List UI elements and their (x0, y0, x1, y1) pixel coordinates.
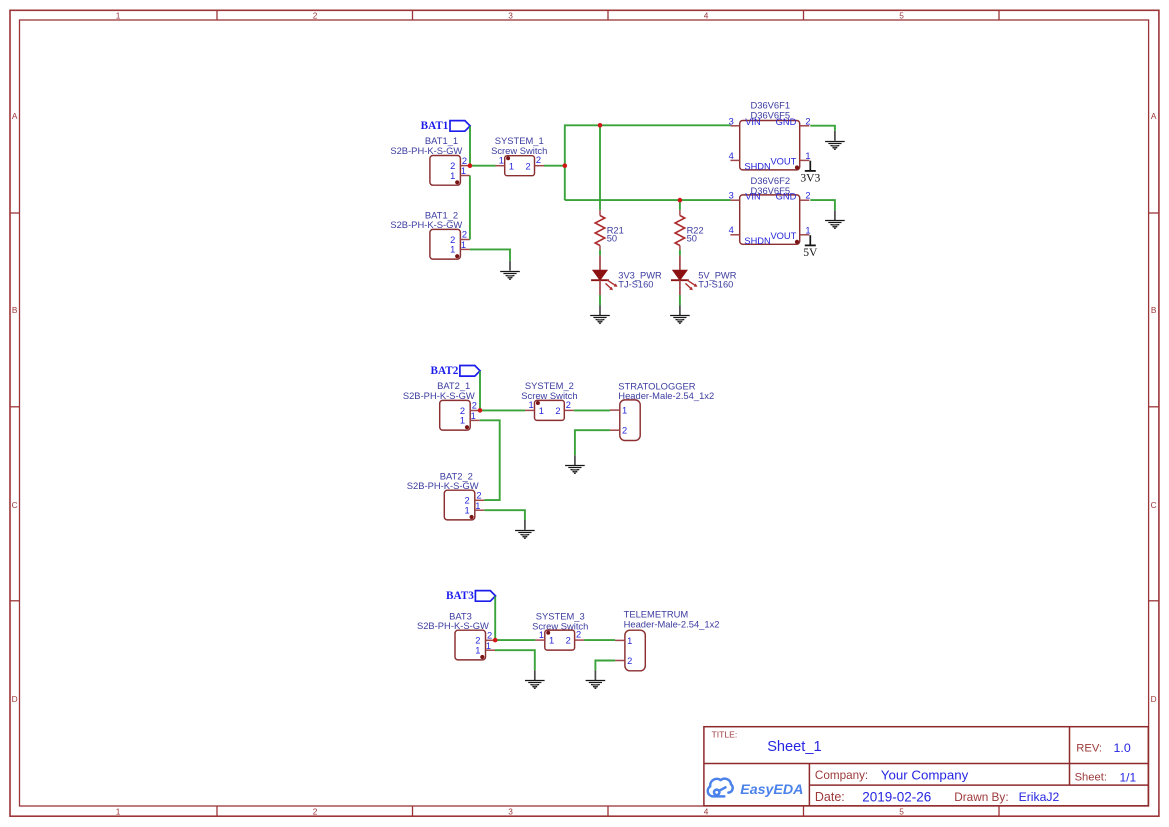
svg-text:1: 1 (450, 245, 455, 255)
svg-text:2: 2 (536, 155, 541, 165)
svg-text:2: 2 (622, 426, 627, 436)
svg-text:2019-02-26: 2019-02-26 (862, 789, 931, 804)
svg-text:2: 2 (450, 235, 455, 245)
svg-text:B: B (12, 305, 18, 315)
svg-text:2: 2 (462, 156, 467, 166)
svg-text:4: 4 (729, 225, 734, 235)
svg-text:2: 2 (526, 161, 531, 171)
svg-text:2: 2 (576, 630, 581, 640)
svg-text:VOUT: VOUT (770, 231, 796, 241)
svg-text:2: 2 (566, 636, 571, 646)
svg-text:50: 50 (687, 233, 697, 243)
svg-text:REV:: REV: (1076, 743, 1102, 755)
svg-text:VOUT: VOUT (770, 157, 796, 167)
svg-text:C: C (12, 500, 18, 510)
svg-text:BAT3: BAT3 (446, 590, 474, 602)
svg-text:3: 3 (508, 10, 513, 20)
svg-text:1: 1 (461, 240, 466, 250)
svg-text:2: 2 (805, 191, 810, 201)
svg-text:EasyEDA: EasyEDA (740, 782, 803, 798)
svg-text:1: 1 (460, 416, 465, 426)
svg-text:4: 4 (729, 151, 734, 161)
svg-text:3: 3 (508, 806, 513, 816)
svg-text:TJ-S160: TJ-S160 (618, 280, 653, 290)
svg-text:1: 1 (461, 166, 466, 176)
svg-text:1: 1 (116, 806, 121, 816)
svg-text:VIN: VIN (745, 191, 761, 201)
svg-text:Sheet:: Sheet: (1075, 772, 1107, 784)
svg-text:1: 1 (465, 506, 470, 516)
svg-text:Company:: Company: (815, 769, 868, 782)
svg-text:2: 2 (805, 116, 810, 126)
svg-text:2: 2 (566, 400, 571, 410)
svg-text:GND: GND (776, 191, 797, 201)
svg-text:A: A (1151, 111, 1157, 121)
svg-text:50: 50 (607, 233, 617, 243)
svg-text:2: 2 (460, 406, 465, 416)
svg-text:1: 1 (539, 406, 544, 416)
svg-text:1: 1 (116, 10, 121, 20)
svg-text:2: 2 (487, 631, 492, 641)
svg-text:TJ-S160: TJ-S160 (698, 280, 733, 290)
svg-text:4: 4 (704, 806, 709, 816)
svg-text:2: 2 (465, 496, 470, 506)
svg-text:1: 1 (486, 641, 491, 651)
svg-text:1: 1 (622, 406, 627, 416)
svg-text:S2B-PH-K-S-GW: S2B-PH-K-S-GW (407, 480, 479, 491)
svg-text:S2B-PH-K-S-GW: S2B-PH-K-S-GW (403, 390, 475, 401)
svg-text:A: A (12, 111, 18, 121)
svg-text:Your Company: Your Company (881, 767, 969, 782)
svg-text:2: 2 (476, 491, 481, 501)
svg-text:2: 2 (627, 656, 632, 666)
svg-text:SHDN: SHDN (744, 236, 770, 246)
svg-text:BAT2: BAT2 (431, 365, 459, 377)
svg-text:ErikaJ2: ErikaJ2 (1019, 790, 1060, 804)
svg-text:1: 1 (627, 636, 632, 646)
svg-text:1: 1 (475, 646, 480, 656)
svg-text:1: 1 (805, 151, 810, 161)
svg-text:VIN: VIN (745, 117, 761, 127)
svg-text:4: 4 (704, 10, 709, 20)
svg-text:1: 1 (475, 501, 480, 511)
svg-text:S2B-PH-K-S-GW: S2B-PH-K-S-GW (390, 145, 462, 156)
svg-text:S2B-PH-K-S-GW: S2B-PH-K-S-GW (390, 219, 462, 230)
svg-text:1: 1 (499, 156, 504, 166)
svg-text:1.0: 1.0 (1114, 741, 1131, 755)
svg-text:D: D (12, 694, 18, 704)
svg-text:2: 2 (475, 636, 480, 646)
svg-text:1/1: 1/1 (1120, 770, 1137, 784)
svg-text:S2B-PH-K-S-GW: S2B-PH-K-S-GW (417, 620, 489, 631)
svg-text:1: 1 (450, 171, 455, 181)
svg-text:TITLE:: TITLE: (712, 729, 738, 739)
svg-text:1: 1 (805, 226, 810, 236)
svg-text:B: B (1151, 305, 1157, 315)
svg-text:BAT1: BAT1 (421, 120, 449, 132)
svg-text:GND: GND (776, 117, 797, 127)
svg-text:Date:: Date: (815, 790, 845, 804)
svg-text:5V: 5V (803, 246, 818, 259)
svg-text:Header-Male-2.54_1x2: Header-Male-2.54_1x2 (624, 619, 720, 630)
svg-text:3V3: 3V3 (800, 172, 820, 185)
svg-text:2: 2 (462, 230, 467, 240)
svg-text:1: 1 (509, 161, 514, 171)
svg-text:5: 5 (899, 10, 904, 20)
svg-text:2: 2 (472, 401, 477, 411)
svg-text:5: 5 (899, 806, 904, 816)
svg-text:1: 1 (471, 411, 476, 421)
svg-text:1: 1 (539, 630, 544, 640)
svg-text:2: 2 (313, 806, 318, 816)
svg-text:D: D (1151, 694, 1157, 704)
svg-text:1: 1 (529, 400, 534, 410)
svg-text:C: C (1151, 500, 1157, 510)
svg-text:2: 2 (555, 406, 560, 416)
svg-text:2: 2 (450, 161, 455, 171)
svg-text:1: 1 (549, 636, 554, 646)
svg-text:Sheet_1: Sheet_1 (767, 739, 821, 755)
svg-text:Drawn By:: Drawn By: (954, 790, 1008, 804)
svg-text:2: 2 (313, 10, 318, 20)
svg-text:SHDN: SHDN (744, 162, 770, 172)
